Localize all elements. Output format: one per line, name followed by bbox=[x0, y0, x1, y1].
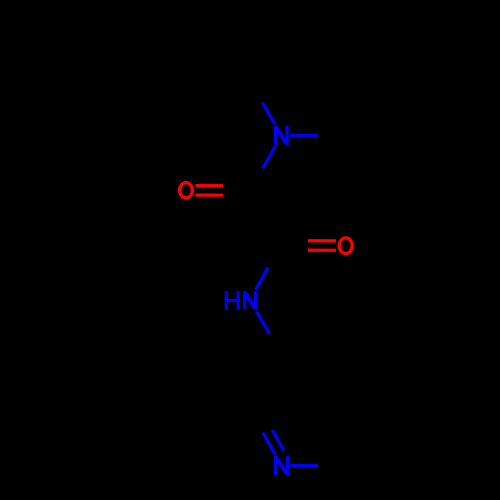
node O2: lower carbonyl oxygen label "O" bbox=[339, 238, 352, 254]
wire: bond pyridine ring C3=C4 (main line), C4r-side half bbox=[314, 354, 345, 357]
wire: double bond C2=O2 carbonyl line 1, Cc2-side half bbox=[280, 248, 308, 251]
node N1: pyridine nitrogen label "N" bbox=[274, 456, 289, 475]
wire: bond C1-C2 oxalyl link, Cc2-side half bbox=[265, 218, 280, 245]
wire: double bond C1=O1 carbonyl line 2, C1-side half bbox=[223, 194, 250, 197]
wire: bond N2-C3 pyridine attach, Nb-side half bbox=[256, 311, 269, 333]
wire: double bond C1=O1 carbonyl line 1, O1-side half bbox=[196, 184, 223, 187]
wire: bond N3-C1 amide, Na-side half bbox=[263, 146, 275, 168]
wire: bond C1-C2 oxalyl link, C1-side half bbox=[250, 191, 265, 218]
wire: bond N3-CH3 left methyl, Na-side half bbox=[262, 102, 275, 124]
wire: double bond pyridine ring C5=C6 inner line, C5r-side half bbox=[353, 416, 363, 434]
wire: double bond C2=O2 carbonyl line 2, O2-side half bbox=[308, 239, 336, 242]
wire: bond pyridine ring N1-C6, N1r-side half bbox=[291, 464, 318, 467]
wire: bond pyridine ring C4-C5, C5r-side half bbox=[361, 383, 377, 410]
wire: double bond C1=O1 carbonyl line 1, C1-side half bbox=[223, 184, 250, 187]
wire: bond pyridine ring C3=C4 (main line), C3r-side half bbox=[283, 354, 314, 357]
wire: double bond pyridine ring C2=N1 inner line, N1r-side half bbox=[272, 430, 284, 451]
wire: bond N3-C1 amide, C1-side half bbox=[250, 169, 262, 191]
wire: bond pyridine ring C3-C2, C2r-side half bbox=[250, 383, 266, 410]
wire: bond C2-N2 amide, Cc2-side half bbox=[268, 245, 280, 267]
wire: bond N3-CH3 right methyl, Na-side half bbox=[290, 134, 318, 137]
wire: bond pyridine ring C4-C5, C4r-side half bbox=[345, 356, 361, 383]
wire: bond pyridine ring C2=N1 (main line), N1r-side half bbox=[263, 433, 275, 455]
wire: double bond pyridine ring C3=C4 inner line, C3r-side half bbox=[294, 364, 314, 367]
node O1: upper carbonyl oxygen label "O" bbox=[180, 183, 193, 198]
wire: bond pyridine ring C5=C6 (main line), C6r-side half bbox=[345, 438, 361, 465]
wire: double bond pyridine ring C5=C6 inner line, C6r-side half bbox=[343, 433, 353, 451]
node N3: dimethylamino nitrogen label "N" bbox=[274, 126, 289, 145]
wire: double bond pyridine ring C2=N1 inner line, C2r-side half bbox=[260, 409, 272, 430]
wire: bond pyridine ring C3-C2, C3r-side half bbox=[267, 356, 283, 383]
wire: double bond C2=O2 carbonyl line 2, Cc2-side half bbox=[280, 239, 308, 242]
wire: bond C2-N2 amide, Nb-side half bbox=[256, 268, 268, 290]
node N2: amide NH label "HN" bbox=[225, 291, 257, 310]
wire: double bond C1=O1 carbonyl line 2, O1-side half bbox=[196, 193, 223, 196]
wire: double bond C2=O2 carbonyl line 1, O2-side half bbox=[308, 249, 336, 252]
wire: bond N3-CH3 left methyl, Me1-side half bbox=[250, 80, 263, 102]
wire: double bond pyridine ring C3=C4 inner line, C4r-side half bbox=[314, 364, 334, 367]
wire: bond pyridine ring N1-C6, C6r-side half bbox=[318, 464, 345, 467]
wire: bond pyridine ring C5=C6 (main line), C5r-side half bbox=[361, 411, 377, 438]
wire: bond N2-C3 pyridine attach, C3r-side half bbox=[269, 334, 282, 356]
wire: bond pyridine ring C2=N1 (main line), C2r-side half bbox=[250, 411, 262, 433]
wire: bond N3-CH3 right methyl, Me2-side half bbox=[318, 134, 346, 137]
